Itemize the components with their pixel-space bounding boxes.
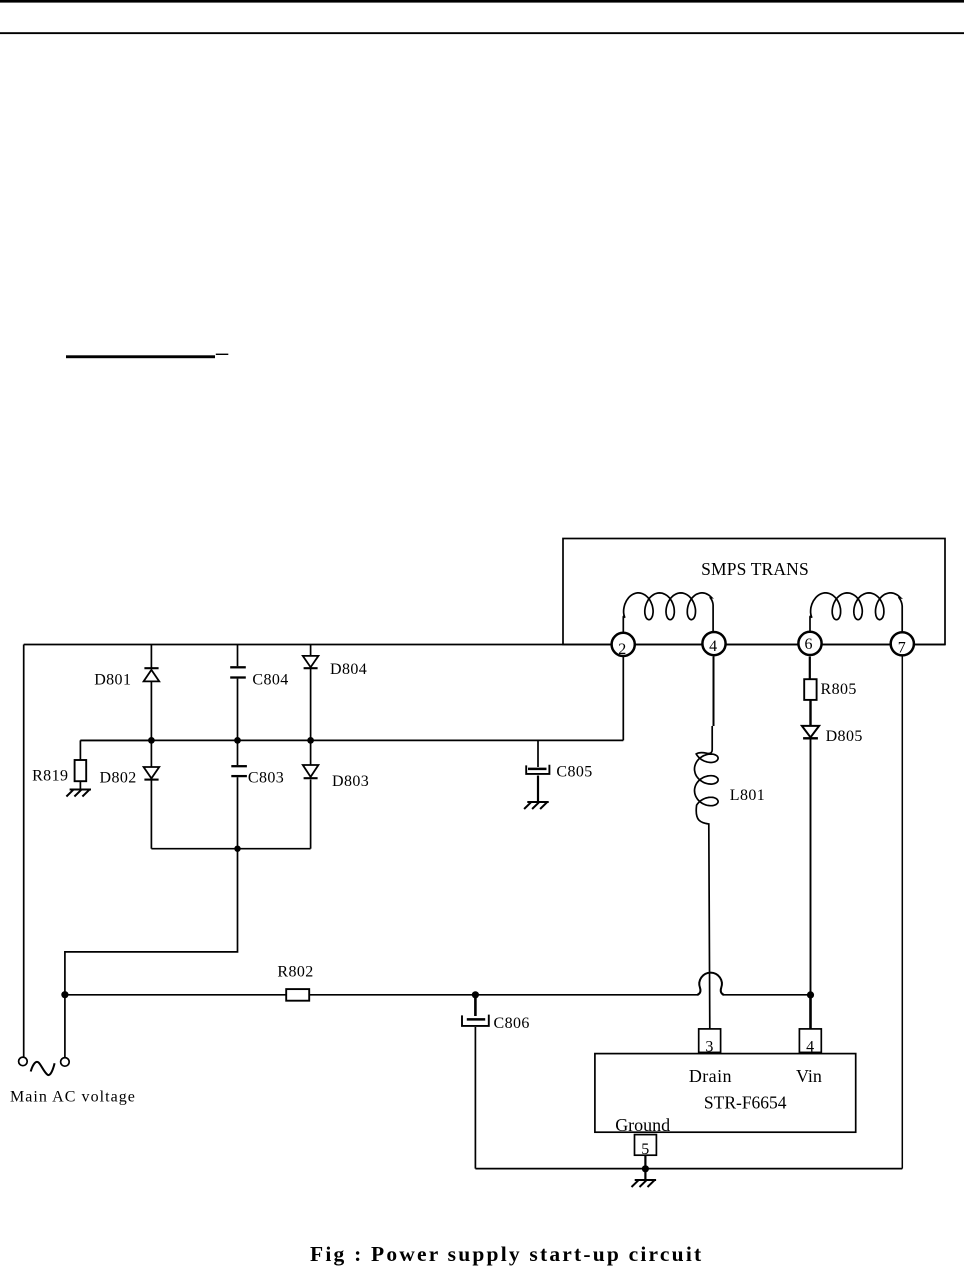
svg-text:3: 3 xyxy=(705,1038,713,1055)
svg-text:R805: R805 xyxy=(821,681,857,698)
svg-text:C803: C803 xyxy=(248,770,284,787)
svg-text:D804: D804 xyxy=(330,661,367,678)
svg-text:R802: R802 xyxy=(277,964,313,981)
svg-text:SMPS TRANS: SMPS TRANS xyxy=(701,559,809,579)
svg-text:C805: C805 xyxy=(556,763,592,780)
svg-text:Vin: Vin xyxy=(796,1066,822,1086)
svg-text:7: 7 xyxy=(898,640,906,657)
svg-text:Main AC voltage: Main AC voltage xyxy=(10,1088,136,1105)
svg-text:D805: D805 xyxy=(826,728,863,745)
svg-text:4: 4 xyxy=(709,638,717,655)
svg-text:R819: R819 xyxy=(32,767,68,784)
svg-text:D802: D802 xyxy=(100,769,137,786)
svg-text:2: 2 xyxy=(618,641,626,658)
svg-text:D801: D801 xyxy=(94,672,131,689)
svg-text:STR-F6654: STR-F6654 xyxy=(704,1093,787,1113)
svg-text:5: 5 xyxy=(641,1141,649,1158)
svg-text:C806: C806 xyxy=(494,1015,530,1032)
svg-text:Fig : Power supply start-up ci: Fig : Power supply start-up circuit xyxy=(310,1242,703,1266)
svg-text:6: 6 xyxy=(804,636,812,653)
svg-text:L801: L801 xyxy=(730,787,765,804)
svg-text:Ground: Ground xyxy=(615,1115,670,1135)
svg-text:D803: D803 xyxy=(332,773,369,790)
svg-text:4: 4 xyxy=(806,1038,814,1055)
svg-text:C804: C804 xyxy=(252,672,288,689)
svg-text:Drain: Drain xyxy=(689,1066,732,1086)
